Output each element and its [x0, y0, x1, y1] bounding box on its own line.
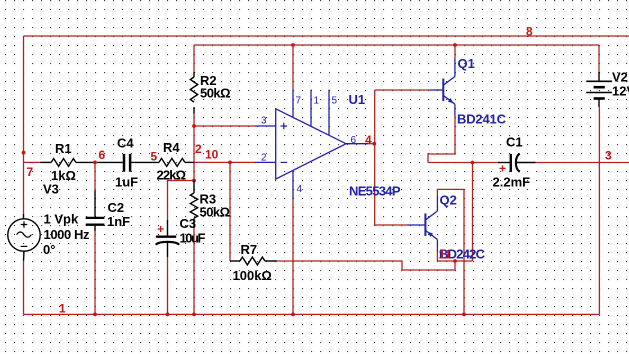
node dot ground rail Q2 collector	[462, 313, 466, 317]
svg-text:6: 6	[99, 148, 106, 162]
resistor R3	[190, 181, 197, 229]
svg-text:1000 Hz: 1000 Hz	[44, 227, 91, 242]
node dot ground rail C2	[93, 313, 97, 317]
svg-text:3: 3	[261, 116, 267, 127]
transistor Q1	[430, 58, 455, 116]
svg-text:1nF: 1nF	[107, 214, 130, 229]
wire: branch to R1	[24, 161, 41, 163]
wire: bottom ground rail node 1	[24, 313, 600, 315]
wire: column from C1 junction down to output node	[472, 163, 474, 262]
svg-text:2.2mF: 2.2mF	[493, 175, 531, 190]
svg-text:C4: C4	[117, 136, 134, 151]
svg-text:10: 10	[205, 148, 219, 162]
wire: battery bottom to ground rail	[598, 107, 600, 314]
wire: drop from supply row to R2	[193, 45, 195, 72]
capacitor C1 polarized	[498, 154, 536, 172]
svg-text:C2: C2	[108, 200, 125, 215]
node junction dot at left vertical	[22, 151, 26, 155]
wire: Q1 emitter staircase to C1 junction	[428, 116, 455, 163]
wire: C2 bottom to ground rail	[94, 231, 96, 314]
svg-text:U1: U1	[349, 92, 366, 107]
svg-text:Q1: Q1	[458, 56, 475, 71]
node dot Q1 collector at supply row	[453, 43, 457, 47]
wire: C3 bottom to ground rail	[167, 257, 169, 314]
wire: minus input row node 10	[194, 161, 255, 163]
battery V2	[586, 72, 612, 107]
transistor Q2	[407, 196, 437, 252]
wire: Q2 collector path down to ground rail	[437, 189, 464, 314]
svg-text:V3: V3	[43, 182, 59, 197]
Q2 emitter arrow	[427, 232, 433, 237]
svg-text:1: 1	[314, 96, 320, 107]
wire: battery top from supply row	[598, 45, 600, 72]
wire: C1 left junction row	[428, 162, 498, 164]
svg-text:C3: C3	[180, 216, 197, 231]
svg-text:3: 3	[605, 149, 612, 163]
Q1 emitter arrow	[448, 98, 454, 103]
svg-text:10uF: 10uF	[180, 231, 206, 246]
svg-text:4: 4	[297, 184, 303, 195]
wire: Q1 collector to supply row	[454, 45, 456, 58]
svg-text:2: 2	[195, 142, 202, 156]
wire: R2 bottom to op-amp plus input node	[193, 114, 195, 181]
node dot C1 junction	[471, 161, 475, 165]
svg-text:R7: R7	[241, 242, 258, 257]
node dot 4	[372, 142, 376, 146]
capacitor C3 polarized	[156, 220, 179, 257]
svg-text:5: 5	[151, 150, 158, 164]
svg-text:12V: 12V	[612, 84, 629, 99]
svg-text:6: 6	[351, 135, 357, 146]
svg-text:22kΩ: 22kΩ	[157, 168, 187, 183]
node dot ground rail C3	[166, 313, 170, 317]
wire: node 6 column to C2	[94, 162, 96, 190]
svg-text:7: 7	[27, 165, 34, 179]
node dot pin7 supply	[291, 43, 295, 47]
svg-text:11: 11	[439, 248, 452, 262]
svg-text:BD241C: BD241C	[457, 112, 507, 127]
resistor R1	[40, 159, 93, 167]
wire: branch to C3	[168, 181, 195, 221]
svg-text:V2: V2	[612, 70, 628, 85]
wire: V3 bottom to ground rail	[23, 261, 25, 315]
plus mark C1	[500, 165, 506, 171]
node dot output junction node 11	[453, 259, 457, 263]
svg-text:NE5534P: NE5534P	[349, 184, 401, 199]
node dot ground rail pin4	[291, 313, 295, 317]
wire: R7 left column from node 10	[229, 162, 231, 261]
node dot at R3 top branch	[192, 179, 196, 183]
wire: R3 bottom to ground rail	[193, 228, 195, 314]
wire: op-amp pin 4 down to ground rail	[292, 199, 294, 314]
wire: Q1 base row	[375, 89, 430, 91]
resistor R4	[159, 158, 194, 166]
node dot ground rail R3	[192, 313, 196, 317]
svg-text:50kΩ: 50kΩ	[200, 205, 231, 220]
svg-text:C1: C1	[506, 135, 523, 150]
svg-text:2: 2	[261, 153, 267, 164]
capacitor C4	[97, 154, 159, 172]
svg-text:1uF: 1uF	[115, 175, 138, 190]
svg-text:Q2: Q2	[440, 193, 457, 208]
capacitor C2	[86, 190, 105, 231]
svg-text:8: 8	[526, 25, 533, 39]
node dot at node 10 R7 branch	[228, 161, 232, 165]
node dot at node 6	[93, 161, 97, 165]
wire: supply row y=45	[194, 44, 599, 46]
op-amp U1	[255, 90, 368, 199]
wire: Q2 base row	[375, 224, 407, 226]
plus mark C3	[158, 226, 164, 232]
svg-text:R4: R4	[163, 140, 180, 155]
wire: top rail node 8	[24, 35, 629, 37]
wire: op-amp output to node 4	[368, 143, 375, 145]
wire: Q2 emitter to output junction	[437, 252, 472, 261]
wire: node 3 row from C1 to right edge	[536, 162, 629, 164]
svg-text:5: 5	[332, 96, 338, 107]
wire: node 4 column up to Q1 base and down to Q2 base	[374, 90, 376, 225]
wire: plus input row	[194, 125, 255, 127]
AC source V3	[8, 214, 40, 261]
wire: R7 right side with jog to output junction	[277, 261, 455, 270]
wire: supply drop to op-amp pin 7	[292, 45, 294, 90]
svg-text:0°: 0°	[43, 242, 55, 257]
svg-text:7: 7	[296, 96, 302, 107]
svg-text:1 Vpk: 1 Vpk	[44, 212, 79, 227]
resistor R7	[230, 257, 277, 265]
svg-text:4: 4	[365, 133, 372, 147]
resistor R2	[190, 72, 197, 114]
svg-text:100kΩ: 100kΩ	[233, 268, 272, 283]
svg-text:50kΩ: 50kΩ	[200, 86, 231, 101]
wire: left vertical from top rail down to V3 top	[23, 36, 25, 214]
svg-text:R1: R1	[55, 141, 72, 156]
svg-text:1: 1	[59, 302, 66, 316]
node dot plus input	[192, 124, 196, 128]
